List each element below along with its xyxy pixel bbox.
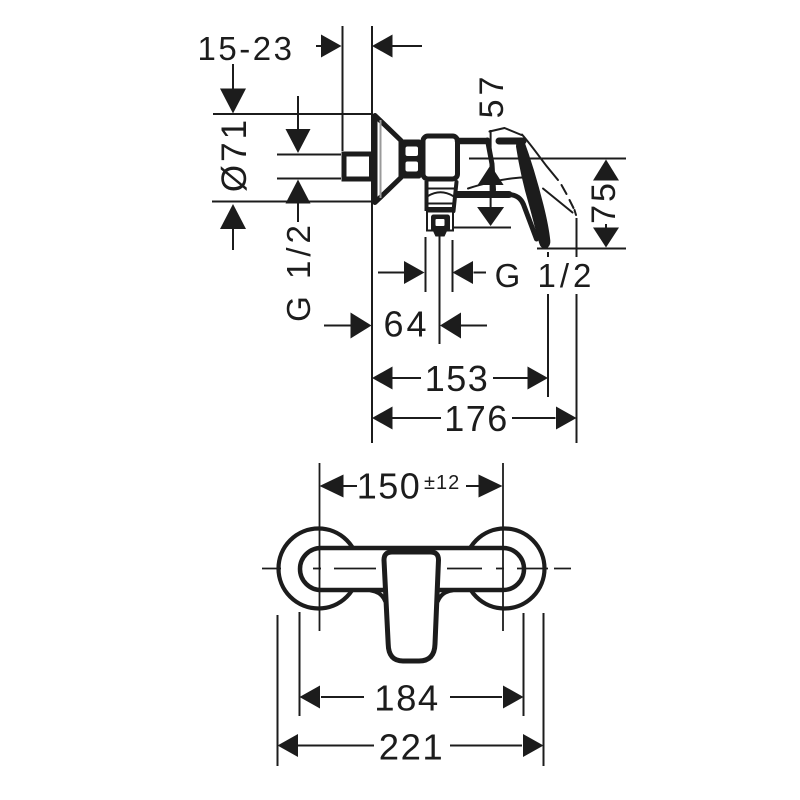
svg-text:±12: ±12 (424, 472, 460, 494)
svg-text:176: 176 (444, 398, 509, 439)
svg-text:G 1/2: G 1/2 (280, 221, 317, 322)
svg-text:G 1/2: G 1/2 (495, 257, 596, 294)
svg-text:150: 150 (357, 466, 422, 507)
svg-text:75: 75 (585, 180, 623, 224)
svg-text:15-23: 15-23 (198, 30, 295, 67)
svg-text:64: 64 (383, 304, 429, 345)
svg-text:Ø71: Ø71 (215, 117, 254, 192)
svg-text:153: 153 (425, 358, 490, 399)
svg-text:57: 57 (473, 73, 511, 119)
svg-text:184: 184 (374, 678, 439, 719)
svg-text:221: 221 (379, 727, 444, 768)
